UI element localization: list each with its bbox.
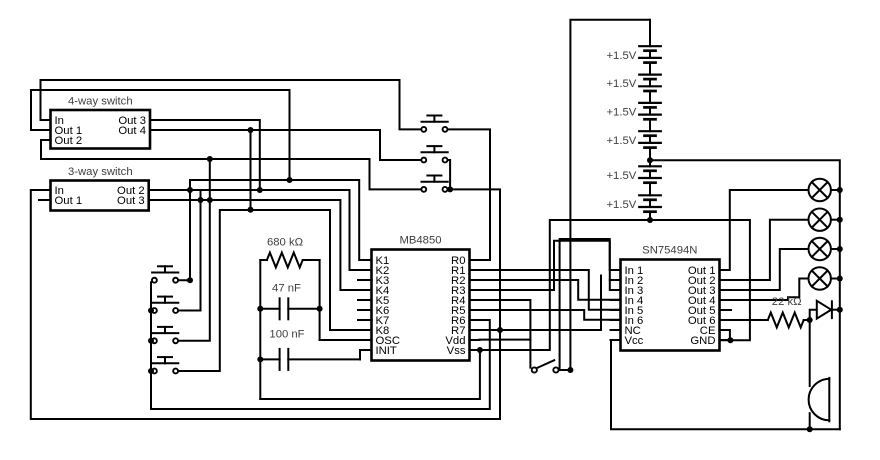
svg-text:GND: GND [690, 335, 715, 347]
svg-text:4-way switch: 4-way switch [68, 96, 133, 108]
svg-text:Out 1: Out 1 [55, 195, 83, 207]
svg-text:+1.5V: +1.5V [606, 107, 636, 119]
svg-text:+1.5V: +1.5V [606, 199, 636, 211]
svg-text:+1.5V: +1.5V [606, 50, 636, 62]
svg-text:+1.5V: +1.5V [606, 135, 636, 147]
svg-text:680 kΩ: 680 kΩ [267, 237, 303, 249]
svg-text:+1.5V: +1.5V [606, 78, 636, 90]
svg-text:Out 4: Out 4 [118, 125, 146, 137]
svg-text:Out 3: Out 3 [117, 195, 145, 207]
svg-text:3-way switch: 3-way switch [68, 166, 133, 178]
svg-text:Vcc: Vcc [625, 335, 644, 347]
svg-text:+1.5V: +1.5V [606, 170, 636, 182]
svg-text:47 nF: 47 nF [272, 282, 301, 294]
svg-text:22 kΩ: 22 kΩ [772, 296, 802, 308]
svg-text:INIT: INIT [376, 345, 397, 357]
svg-text:Out 2: Out 2 [55, 135, 83, 147]
svg-text:100 nF: 100 nF [269, 328, 304, 340]
svg-text:Vss: Vss [447, 345, 466, 357]
svg-text:MB4850: MB4850 [399, 234, 441, 246]
svg-text:SN75494N: SN75494N [642, 245, 697, 257]
